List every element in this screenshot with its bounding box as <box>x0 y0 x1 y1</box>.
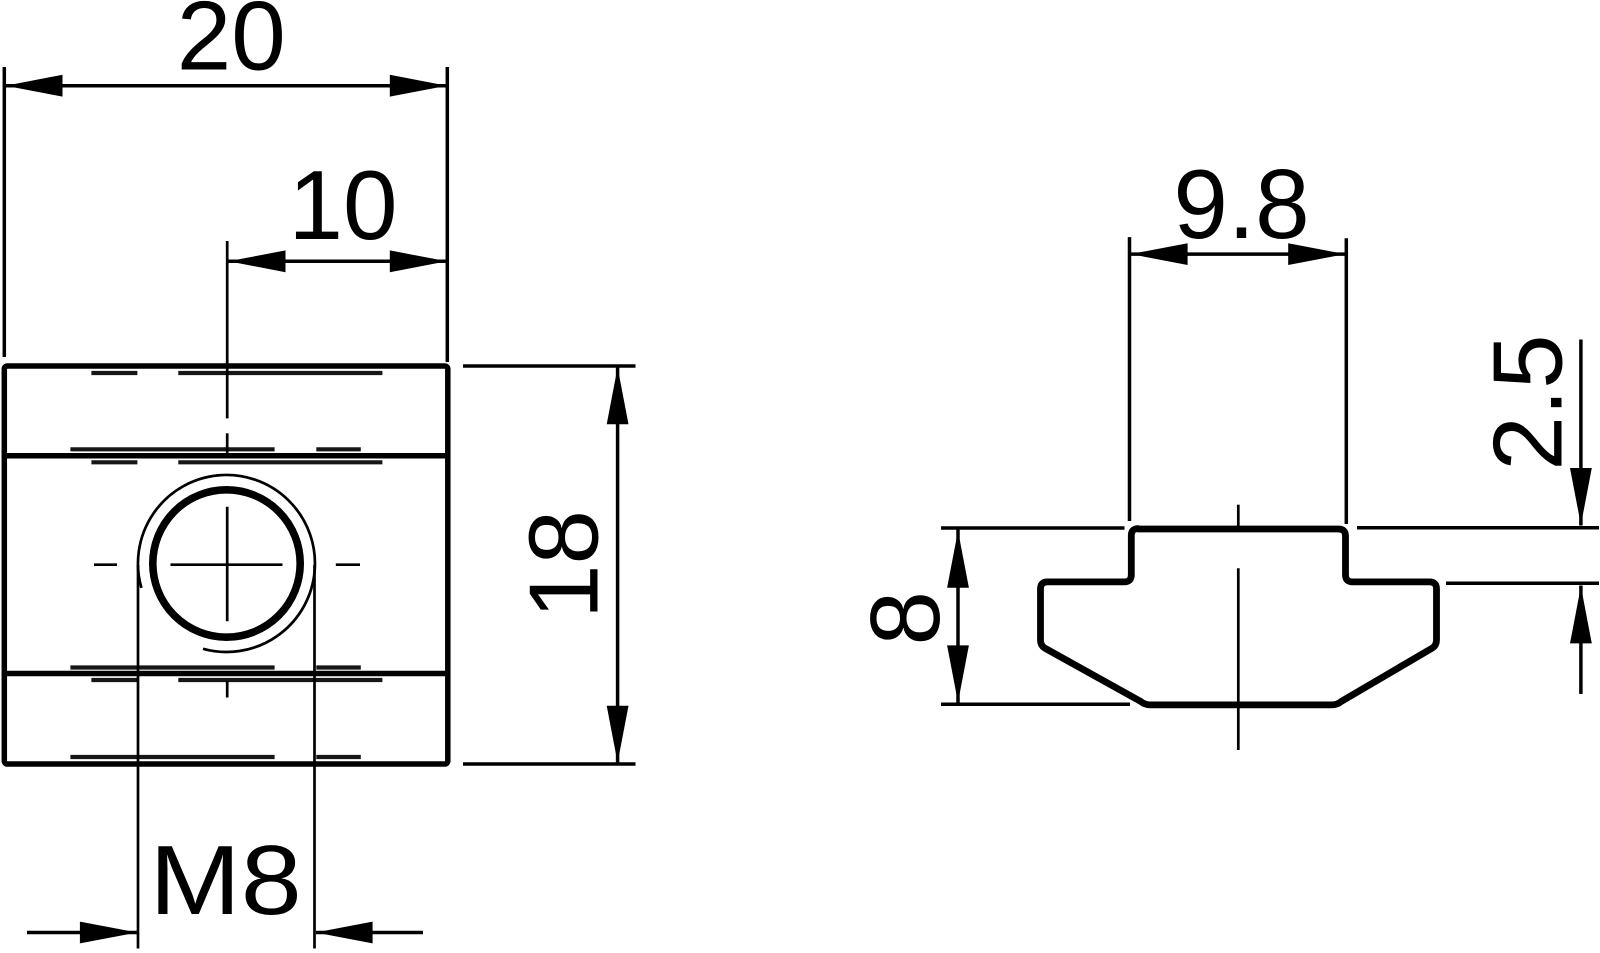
dimension M8: right arrow <box>316 922 373 944</box>
dimension 9.8: left arrow <box>1131 243 1188 265</box>
dimension 18: dimension line <box>616 367 620 764</box>
dimension M8: right extension line <box>313 565 316 949</box>
dimension 8: label <box>850 591 960 646</box>
dimension 10: right arrow <box>390 250 447 272</box>
dimension 9.8: right extension line <box>1345 238 1349 524</box>
dimension 8: bottom arrow <box>947 645 969 702</box>
dimension M8: left dimension line <box>27 931 137 935</box>
dimension 10: dimension line <box>227 260 448 264</box>
vertical centerline dash lower <box>226 681 229 698</box>
svg-text:8: 8 <box>850 591 960 646</box>
dimension 2.5: upper dimension line <box>1579 340 1583 526</box>
dimension M8: left arrow <box>80 922 137 944</box>
dimension 8: dimension line <box>956 529 960 705</box>
side view: vertical centerline upper dash <box>1237 505 1240 527</box>
dimension 18: label <box>509 510 619 619</box>
svg-text:2.5: 2.5 <box>1473 334 1583 470</box>
top view: chamfer dash row B3 <box>70 755 360 759</box>
dimension 20: dimension line <box>4 84 448 88</box>
dimension 2.5: top extension line <box>1357 526 1599 530</box>
svg-text:10: 10 <box>288 150 397 260</box>
top view: chamfer dash row B2 <box>70 665 360 669</box>
dimension 20: right arrow <box>390 75 447 97</box>
dimension 8: top arrow <box>947 531 969 588</box>
horizontal centerline through hole <box>171 563 283 566</box>
dimension 2.5: lower arrow <box>1570 586 1592 643</box>
svg-text:18: 18 <box>509 510 619 619</box>
dimension 20: left arrow <box>6 75 63 97</box>
vertical centerline dash <box>226 433 229 453</box>
dimension M8: label <box>149 826 301 935</box>
top view: lower edge line <box>4 671 448 677</box>
top view: chamfer dash row A2 <box>91 460 382 464</box>
dimension 10: left arrow <box>229 250 286 272</box>
vertical centerline upper <box>226 241 229 418</box>
side view: vertical centerline main <box>1237 568 1240 750</box>
dimension 20: right extension line <box>446 67 450 362</box>
dimension 2.5: upper arrow <box>1570 468 1592 525</box>
top view: chamfer dash row B1 <box>70 447 360 451</box>
dimension 18: bottom arrow <box>607 706 629 763</box>
vertical centerline through hole <box>226 507 229 622</box>
dimension 2.5: label <box>1473 334 1583 470</box>
top view: nut body outline <box>4 366 448 764</box>
dimension M8: right dimension line <box>316 931 423 935</box>
top view: chamfer dash row A3 <box>91 678 382 682</box>
thread hole minor circle <box>153 490 300 637</box>
dimension M8: left extension line <box>137 565 140 949</box>
side view: T-nut profile outline <box>1041 529 1437 705</box>
horizontal centerline right dash <box>336 563 360 566</box>
horizontal centerline left dash <box>94 563 117 566</box>
svg-text:20: 20 <box>177 0 286 91</box>
dimension 2.5: bottom extension line <box>1446 581 1599 585</box>
thread major arc <box>138 475 315 652</box>
dimension 18: top arrow <box>607 367 629 424</box>
dimension 18: top extension line <box>463 364 636 368</box>
dimension 20: left extension line <box>3 67 7 357</box>
top view: upper edge line <box>4 453 448 459</box>
dimension 9.8: dimension line <box>1130 252 1347 256</box>
dimension 9.8: right arrow <box>1288 243 1345 265</box>
dimension 8: top extension line <box>941 526 1125 530</box>
dimension 2.5: lower dimension line <box>1579 586 1583 695</box>
svg-text:M8: M8 <box>149 826 301 935</box>
dimension 9.8: left extension line <box>1128 237 1132 521</box>
dimension 18: bottom extension line <box>463 762 636 766</box>
dimension 8: bottom extension line <box>941 703 1130 707</box>
top view: chamfer dash row A1 <box>91 371 382 375</box>
svg-text:9.8: 9.8 <box>1173 149 1309 259</box>
